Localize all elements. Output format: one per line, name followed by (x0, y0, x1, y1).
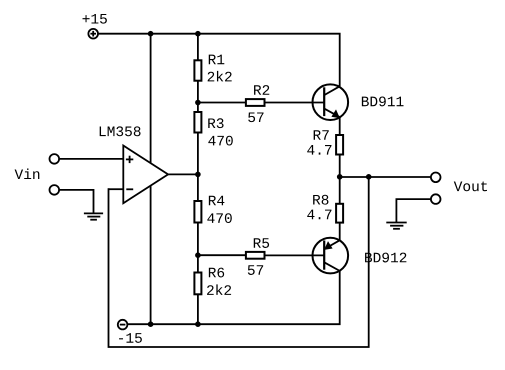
wire R5 to Q2 base (265, 254, 325, 256)
wire output node to R8 (339, 177, 341, 204)
Vout terminal + (431, 173, 441, 183)
transistor Q2 BD912 (313, 238, 349, 274)
label BD912 (365, 253, 406, 263)
label R1 (209, 55, 225, 65)
label R6 (209, 268, 224, 278)
label R8 (313, 195, 328, 205)
wire R8 to Q2 emitter (339, 223, 341, 241)
Vin terminal + (50, 154, 60, 164)
wire R1 to R3 (197, 81, 199, 112)
wire output to Vout (340, 176, 431, 178)
transistor Q1 BD911 (313, 84, 349, 120)
node junction -15 / R6 (195, 321, 201, 327)
node output junction R7/R8 (337, 174, 343, 180)
resistor R3 (194, 112, 201, 133)
wire Vin+ to noninverting input (59, 158, 123, 160)
+15 terminal (88, 29, 98, 39)
resistor R4 (194, 201, 201, 223)
wire node to R2 (198, 102, 246, 104)
wire Vout- to ground (396, 199, 431, 222)
ground (input side) (84, 213, 103, 219)
resistor R6 (194, 273, 201, 295)
node junction R1/R3/R2 (195, 100, 201, 106)
node junction +15 / R1 (195, 31, 201, 37)
wire middle rail top (197, 34, 199, 61)
wire R7 to output node (339, 155, 341, 178)
wire R2 to Q1 base (265, 102, 325, 104)
wire inverting input (109, 188, 124, 190)
node junction +15 / V+ pin (148, 31, 154, 37)
wire R6 to -15 rail (197, 294, 199, 324)
wire V- power pin (150, 186, 152, 324)
label +15 (83, 14, 107, 24)
label 57 (R5) (248, 265, 263, 275)
node junction -15 / V- pin (148, 321, 154, 327)
wire Vin- to ground (59, 190, 93, 214)
wire +15 rail (98, 34, 340, 87)
wire op-amp output (168, 173, 198, 175)
label 470 (R4) (207, 213, 231, 223)
label BD911 (362, 97, 404, 107)
wire -15 rail (127, 271, 339, 324)
label R4 (209, 196, 225, 206)
label R5 (254, 238, 269, 248)
label R3 (208, 118, 223, 128)
resistor R7 (336, 135, 343, 155)
wire R4 to R6 (197, 223, 199, 273)
label -15 (119, 333, 142, 343)
wire node to R5 (198, 254, 246, 256)
label 2k2 (R1) (208, 71, 232, 82)
label 4.7 (R8) (307, 210, 331, 220)
label 470 (R3) (208, 136, 232, 146)
label R2 (254, 85, 269, 95)
wire feedback loop (109, 177, 369, 347)
node junction R4/R6/R5 (195, 252, 201, 258)
resistor R1 (194, 60, 201, 80)
label 57 (R2) (248, 112, 263, 122)
wire R3 to output node (197, 133, 199, 202)
label 4.7 (R7) (307, 145, 331, 155)
label Vout (454, 181, 487, 191)
node op-amp output junction (195, 172, 201, 178)
label LM358 (100, 126, 141, 136)
resistor R5 (246, 252, 265, 259)
node output junction feedback (366, 174, 372, 180)
label 2k2 (R6) (207, 284, 231, 295)
wire Q1 emitter to R7 (339, 117, 341, 135)
resistor R2 (246, 99, 265, 106)
op-amp U1 LM358 (123, 146, 168, 204)
-15 terminal (118, 320, 128, 330)
Vout terminal - (431, 194, 441, 204)
wire V+ power pin (150, 34, 152, 164)
Vin terminal - (50, 185, 60, 195)
resistor R8 (336, 204, 343, 223)
label R7 (314, 130, 329, 140)
label Vin (15, 168, 40, 179)
ground (output side) (386, 223, 406, 229)
